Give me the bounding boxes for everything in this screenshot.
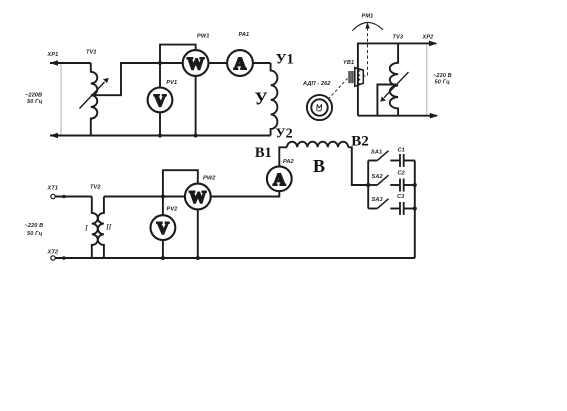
pin arrow XP2 bottom bbox=[430, 113, 439, 119]
node junction PW2 bottom bbox=[196, 256, 200, 260]
wire XT1 to TV2 bbox=[55, 196, 91, 198]
plug XP1 body (thin line) bbox=[60, 63, 62, 136]
svg-text:50 Гц: 50 Гц bbox=[27, 231, 43, 237]
svg-text:II: II bbox=[105, 222, 112, 231]
svg-text:PW2: PW2 bbox=[203, 175, 216, 181]
svg-text:ХТ1: ХТ1 bbox=[47, 185, 59, 191]
TV1 tap wire bbox=[94, 63, 183, 95]
voltmeter PV1 bbox=[148, 88, 173, 113]
svg-text:АДП - 262: АДП - 262 bbox=[302, 81, 331, 87]
pin arrow XP2 top bbox=[429, 41, 438, 47]
wire PV2 to bottom bbox=[162, 240, 164, 258]
wattmeter PW2 bbox=[185, 184, 211, 210]
armature winding B (motor) bbox=[287, 142, 348, 148]
svg-text:~220 В: ~220 В bbox=[25, 223, 44, 229]
wattmeter PW1 bbox=[183, 50, 209, 76]
wire PW1 current-coil down bbox=[195, 76, 197, 136]
left bus of switch bank bbox=[367, 161, 369, 209]
svg-text:~220 В: ~220 В bbox=[433, 73, 452, 79]
wire top (right circuit) bbox=[358, 43, 436, 115]
node junction B2 bus bbox=[366, 183, 370, 187]
svg-text:C2: C2 bbox=[398, 171, 406, 177]
motor ADP-262 bbox=[307, 95, 332, 120]
svg-text:W: W bbox=[187, 54, 204, 73]
pin arrow XP1 top bbox=[50, 60, 59, 66]
node junction PV1 bottom bbox=[158, 134, 162, 138]
terminal XT2 bbox=[51, 256, 55, 260]
svg-text:TV2: TV2 bbox=[90, 185, 101, 191]
node junction right bus C3 bbox=[413, 207, 417, 211]
wire TV2 secondary to PW2 bbox=[104, 196, 185, 198]
svg-text:50 Гц: 50 Гц bbox=[27, 99, 43, 105]
svg-text:SA1: SA1 bbox=[371, 150, 382, 156]
svg-text:SA3: SA3 bbox=[372, 197, 384, 203]
transformer TV2 primary winding I bbox=[92, 197, 98, 259]
capacitor C2 bbox=[399, 179, 401, 192]
svg-text:TV1: TV1 bbox=[86, 50, 97, 56]
brake YB1 pads bbox=[349, 71, 353, 83]
wattmeter PW1 voltage-coil bracket bbox=[160, 45, 196, 63]
ammeter PA1 bbox=[227, 50, 253, 76]
svg-text:50 Гц: 50 Гц bbox=[435, 80, 451, 86]
svg-text:C1: C1 bbox=[398, 147, 405, 153]
right bus of capacitor bank bbox=[414, 161, 416, 259]
svg-text:В2: В2 bbox=[351, 133, 369, 149]
tachometer PM1 dashed link bbox=[363, 28, 367, 76]
svg-text:SA2: SA2 bbox=[372, 174, 384, 180]
svg-text:PA1: PA1 bbox=[239, 32, 250, 38]
node XT1 dot bbox=[62, 195, 66, 199]
capacitor C1 bbox=[399, 154, 401, 167]
svg-text:W: W bbox=[189, 188, 206, 207]
PM1 needle arrowhead bbox=[365, 22, 369, 28]
svg-text:У2: У2 bbox=[275, 127, 292, 142]
node junction PW1 bottom bbox=[194, 134, 198, 138]
svg-text:В: В bbox=[313, 156, 325, 176]
wire bottom return (lower circuit) bbox=[55, 257, 414, 259]
svg-text:У: У bbox=[255, 89, 268, 109]
svg-text:A: A bbox=[273, 170, 286, 189]
svg-text:~220В: ~220В bbox=[25, 93, 42, 99]
capacitor C3 bbox=[399, 202, 401, 215]
wire bottom return (top circuit) bbox=[50, 135, 271, 137]
svg-text:В1: В1 bbox=[255, 145, 272, 161]
svg-text:РМ1: РМ1 bbox=[362, 14, 374, 20]
node XT2 dot bbox=[62, 256, 66, 260]
node junction PV2 top bbox=[161, 195, 165, 199]
excitation winding U (motor) bbox=[271, 63, 278, 136]
node junction at PV1 tap bbox=[158, 61, 162, 65]
ammeter PA2 bbox=[267, 166, 292, 191]
voltmeter PV1 branch wire bbox=[159, 63, 161, 88]
plug XP2 body (thin line) bbox=[426, 43, 428, 115]
switch SA3 bbox=[368, 208, 377, 210]
svg-text:PA2: PA2 bbox=[283, 159, 295, 165]
svg-text:C3: C3 bbox=[397, 194, 405, 200]
wire PW2 current-coil down bbox=[197, 209, 199, 258]
wire PA2 to winding B terminal B1 bbox=[279, 147, 287, 166]
node junction PV2 bottom bbox=[161, 256, 165, 260]
autotransformer TV1 winding bbox=[91, 63, 98, 136]
TV1 variable arrow bbox=[80, 82, 105, 109]
svg-text:A: A bbox=[234, 54, 247, 73]
brake YB1 body bbox=[355, 68, 364, 87]
svg-text:V: V bbox=[157, 219, 170, 238]
svg-text:ХР2: ХР2 bbox=[422, 34, 435, 40]
motor inner glyph bbox=[317, 104, 322, 111]
voltmeter PV2 branch bbox=[162, 197, 164, 216]
PM1 scale arc bbox=[352, 22, 383, 30]
wire PA1 to winding U bbox=[253, 62, 271, 64]
shaft link motor to brake (dashed) bbox=[328, 78, 348, 99]
svg-text:PV2: PV2 bbox=[167, 207, 179, 213]
wire XP1 top input bbox=[50, 62, 91, 64]
wire bottom (right circuit) bbox=[358, 115, 437, 117]
autotransformer TV3 winding bbox=[390, 43, 398, 115]
TV3 variable arrow bbox=[384, 72, 409, 98]
svg-text:YB1: YB1 bbox=[343, 60, 354, 66]
switch SA1 bbox=[368, 160, 377, 162]
wattmeter PW2 voltage-coil bracket bbox=[163, 170, 198, 196]
svg-text:У1: У1 bbox=[276, 51, 294, 67]
wire PV1 to bottom bbox=[159, 112, 161, 135]
brake YB1 coil wavy bbox=[358, 71, 361, 84]
node junction right bus C2 bbox=[413, 183, 417, 187]
wire B2 to switch bank bbox=[348, 147, 368, 185]
svg-text:PV1: PV1 bbox=[166, 80, 177, 86]
svg-text:V: V bbox=[154, 91, 167, 110]
svg-text:I: I bbox=[84, 224, 88, 233]
wire PW1 to PA1 bbox=[209, 62, 228, 64]
switch SA2 bbox=[368, 184, 377, 186]
svg-text:TV3: TV3 bbox=[393, 35, 404, 41]
transformer TV2 secondary winding II bbox=[98, 197, 104, 259]
TV3 tap wire bbox=[377, 85, 396, 116]
svg-text:ХР1: ХР1 bbox=[47, 52, 59, 58]
svg-text:ХТ2: ХТ2 bbox=[47, 249, 59, 255]
terminal XT1 bbox=[51, 194, 55, 198]
svg-text:PW1: PW1 bbox=[197, 34, 209, 40]
pin arrow XP1 bottom bbox=[50, 133, 59, 139]
voltmeter PV2 bbox=[151, 215, 176, 240]
wire PW2 to PA2 bbox=[211, 191, 280, 196]
